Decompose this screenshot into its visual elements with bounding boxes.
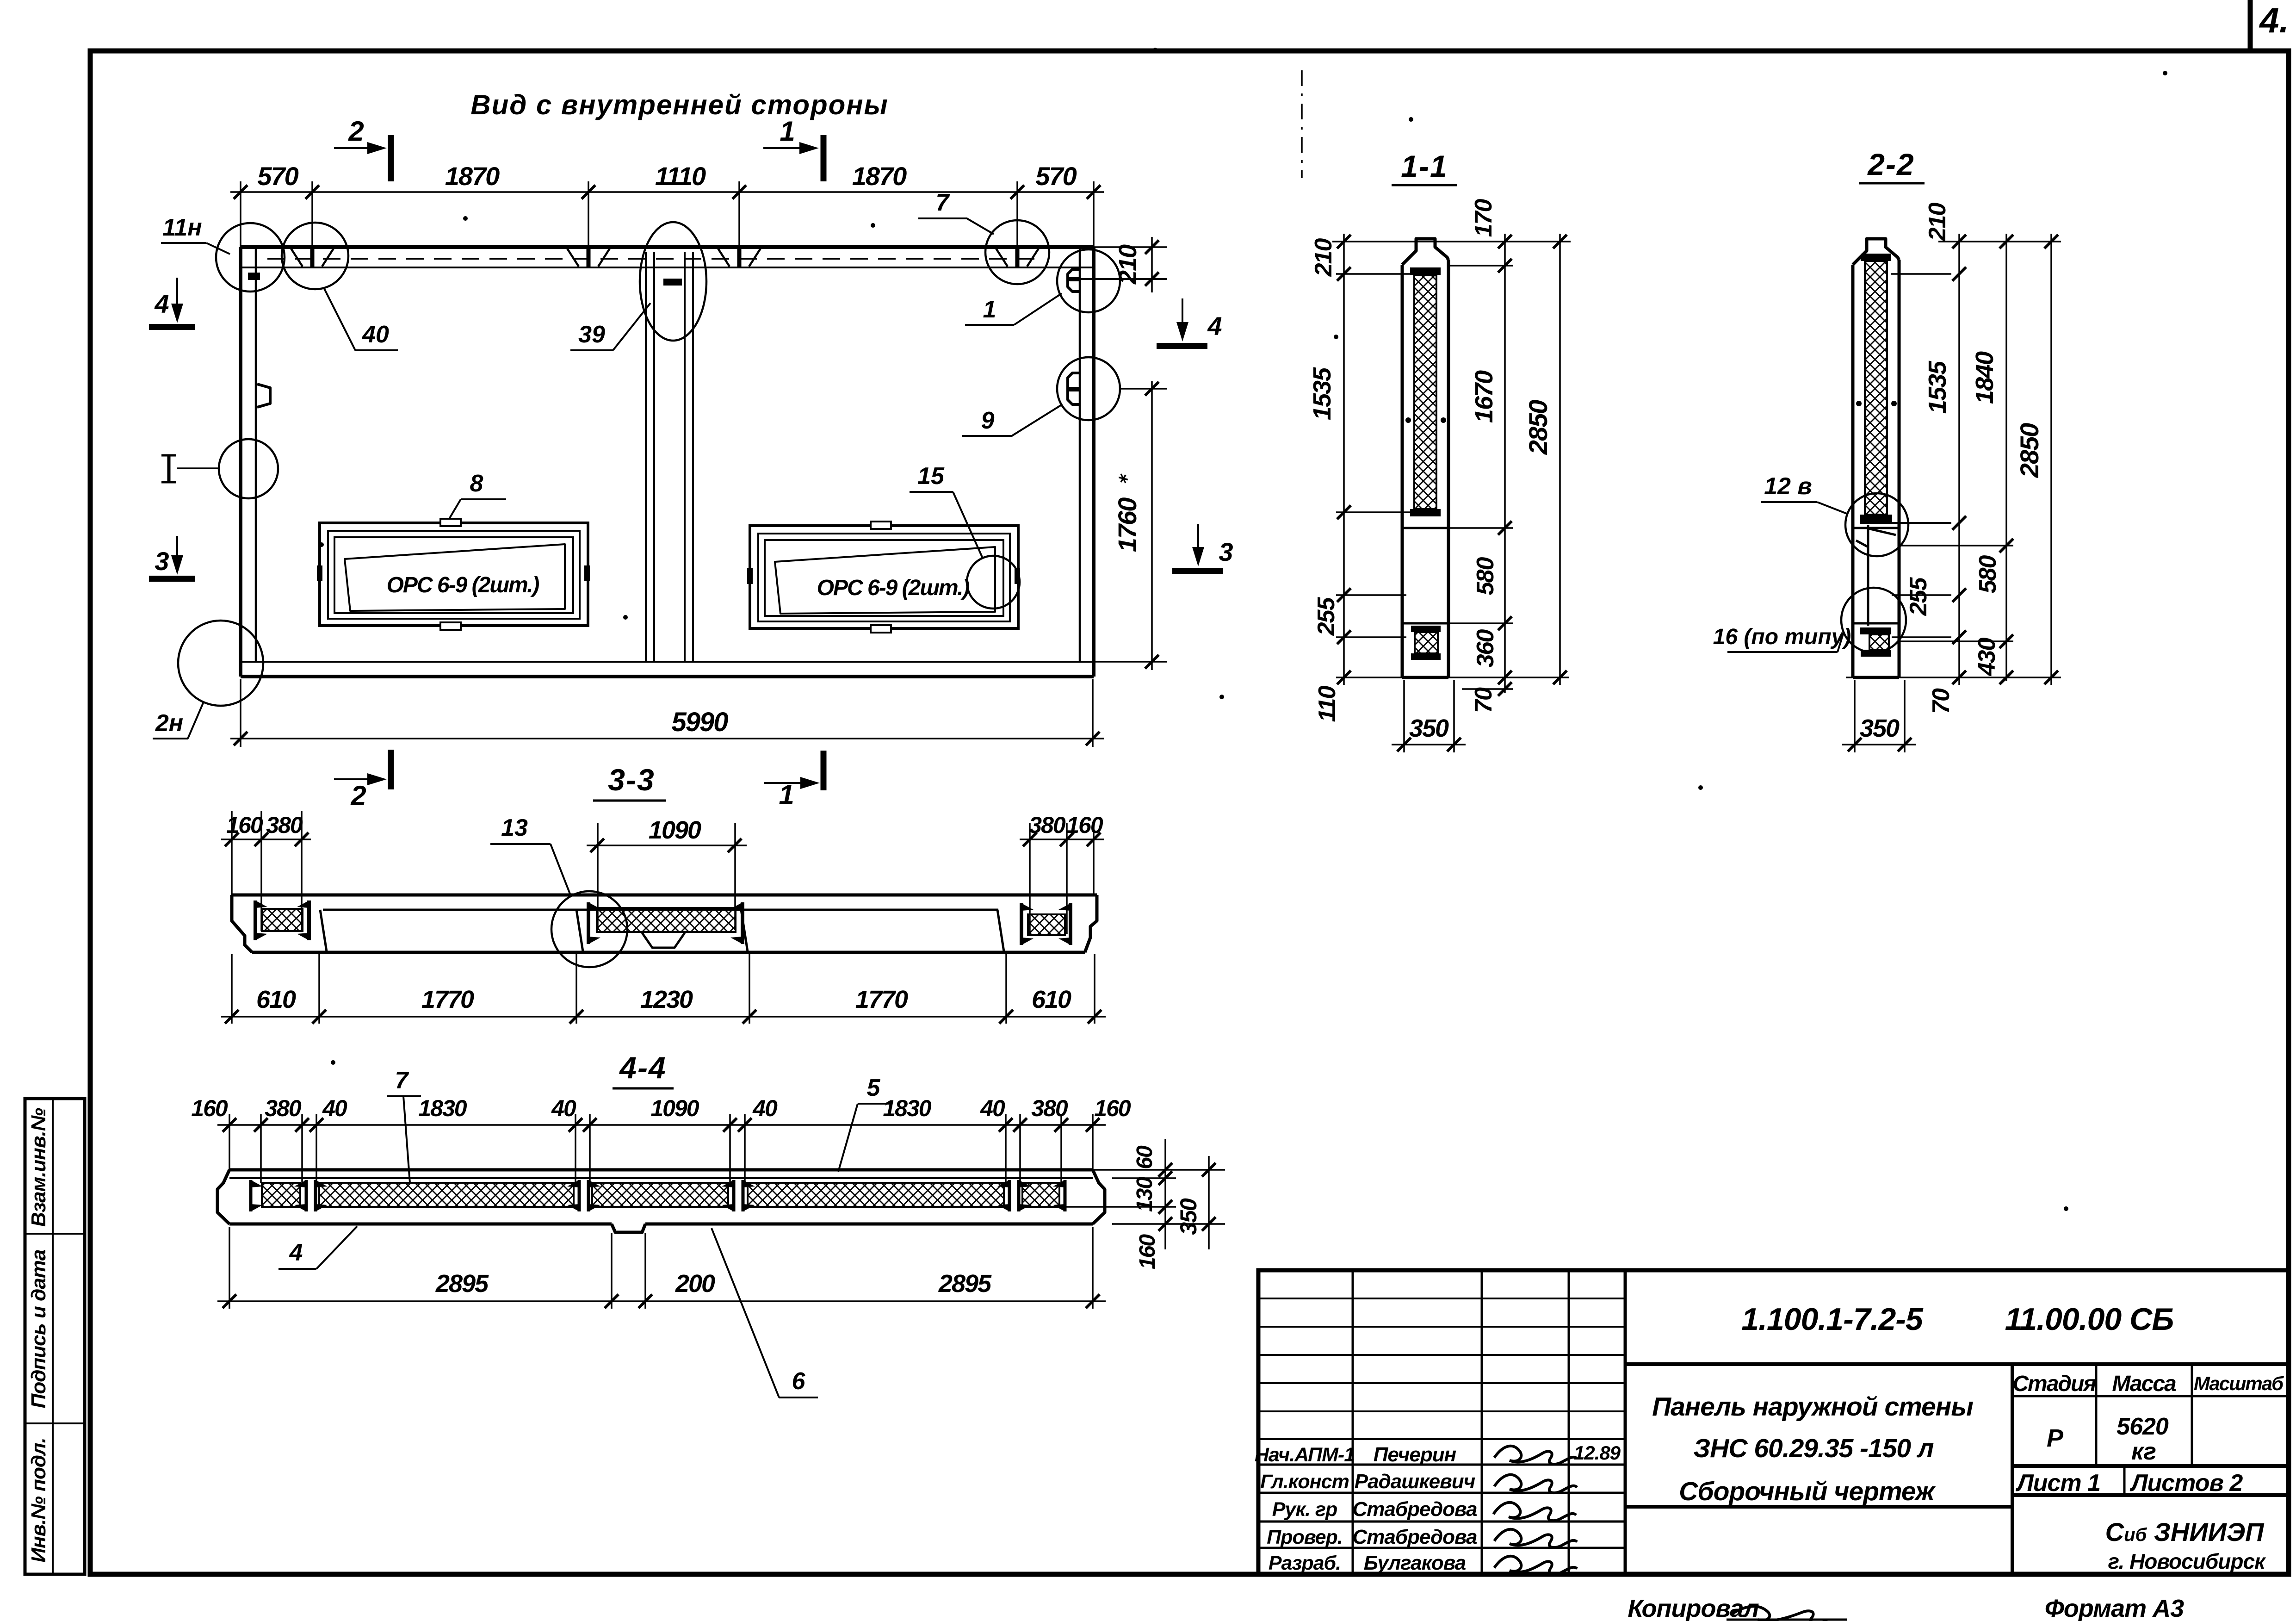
svg-text:1830: 1830 bbox=[883, 1095, 931, 1121]
svg-text:Лист 1: Лист 1 bbox=[2015, 1470, 2100, 1497]
svg-text:380: 380 bbox=[265, 1095, 302, 1121]
svg-text:Стабредова: Стабредова bbox=[1352, 1526, 1477, 1548]
svg-text:160: 160 bbox=[1094, 1095, 1131, 1121]
svg-text:40: 40 bbox=[322, 1095, 347, 1121]
svg-text:4: 4 bbox=[289, 1239, 303, 1266]
svg-text:5620: 5620 bbox=[2117, 1413, 2169, 1440]
svg-text:1770: 1770 bbox=[421, 986, 474, 1013]
svg-text:16 (по типу): 16 (по типу) bbox=[1713, 625, 1851, 649]
svg-text:380: 380 bbox=[1029, 812, 1066, 838]
svg-text:1230: 1230 bbox=[640, 986, 693, 1013]
svg-text:4: 4 bbox=[1207, 311, 1222, 341]
svg-text:Сборочный чертеж: Сборочный чертеж bbox=[1679, 1477, 1936, 1506]
svg-text:210: 210 bbox=[1924, 203, 1951, 242]
svg-text:4.: 4. bbox=[2259, 1, 2289, 40]
svg-text:Печерин: Печерин bbox=[1374, 1443, 1456, 1466]
svg-text:3-3: 3-3 bbox=[608, 763, 655, 797]
svg-text:1.100.1-7.2-5: 1.100.1-7.2-5 bbox=[1741, 1302, 1924, 1337]
svg-text:570: 570 bbox=[1035, 161, 1077, 191]
svg-text:1535: 1535 bbox=[1924, 360, 1951, 414]
svg-text:13: 13 bbox=[501, 814, 528, 841]
svg-text:160: 160 bbox=[1066, 812, 1103, 838]
svg-text:Булгакова: Булгакова bbox=[1364, 1552, 1466, 1574]
svg-text:40: 40 bbox=[551, 1095, 576, 1121]
svg-text:12.89: 12.89 bbox=[1574, 1442, 1621, 1464]
svg-text:Разраб.: Разраб. bbox=[1269, 1552, 1341, 1574]
svg-text:7: 7 bbox=[936, 189, 950, 216]
svg-text:2895: 2895 bbox=[938, 1270, 992, 1298]
svg-text:40: 40 bbox=[980, 1095, 1005, 1121]
svg-text:580: 580 bbox=[1974, 555, 2001, 594]
svg-text:350: 350 bbox=[1409, 714, 1449, 742]
svg-text:350: 350 bbox=[1176, 1198, 1201, 1235]
svg-text:1760: 1760 bbox=[1113, 497, 1142, 552]
svg-text:255: 255 bbox=[1313, 597, 1340, 636]
svg-text:70: 70 bbox=[1470, 687, 1497, 713]
svg-text:Масштаб: Масштаб bbox=[2194, 1373, 2284, 1394]
svg-text:г. Новосибирск: г. Новосибирск bbox=[2108, 1549, 2267, 1573]
svg-text:160: 160 bbox=[1135, 1234, 1160, 1269]
svg-text:Листов 2: Листов 2 bbox=[2129, 1470, 2243, 1497]
svg-text:Нач.АПМ-1: Нач.АПМ-1 bbox=[1255, 1444, 1355, 1466]
svg-text:570: 570 bbox=[257, 161, 298, 191]
svg-text:12 в: 12 в bbox=[1764, 473, 1812, 500]
svg-text:1870: 1870 bbox=[852, 161, 907, 191]
svg-text:40: 40 bbox=[362, 321, 389, 348]
svg-text:1770: 1770 bbox=[855, 986, 908, 1013]
svg-text:8: 8 bbox=[470, 470, 483, 497]
svg-text:9: 9 bbox=[981, 407, 995, 434]
svg-text:2: 2 bbox=[348, 116, 364, 147]
svg-text:5: 5 bbox=[867, 1074, 881, 1101]
svg-text:1090: 1090 bbox=[650, 1095, 699, 1121]
svg-text:70: 70 bbox=[1928, 688, 1955, 714]
svg-text:Подпись и дата: Подпись и дата bbox=[27, 1249, 50, 1408]
svg-text:580: 580 bbox=[1472, 557, 1499, 596]
svg-text:170: 170 bbox=[1470, 199, 1497, 237]
svg-text:Рук. гр: Рук. гр bbox=[1272, 1498, 1337, 1521]
svg-text:255: 255 bbox=[1905, 577, 1932, 616]
svg-text:2850: 2850 bbox=[1523, 400, 1553, 455]
svg-text:39: 39 bbox=[578, 321, 605, 348]
svg-text:Взам.инв.№: Взам.инв.№ bbox=[27, 1108, 50, 1227]
svg-text:5990: 5990 bbox=[671, 707, 728, 737]
svg-text:Масса: Масса bbox=[2112, 1372, 2176, 1396]
svg-text:380: 380 bbox=[1031, 1095, 1068, 1121]
svg-text:350: 350 bbox=[1860, 714, 1900, 742]
svg-text:Формат А3: Формат А3 bbox=[2045, 1595, 2184, 1621]
svg-text:7: 7 bbox=[395, 1067, 409, 1094]
svg-text:4: 4 bbox=[154, 289, 169, 318]
svg-text:2-2: 2-2 bbox=[1867, 147, 1914, 181]
svg-text:Радашкевич: Радашкевич bbox=[1355, 1470, 1475, 1493]
svg-text:2: 2 bbox=[350, 780, 366, 811]
svg-text:130: 130 bbox=[1133, 1177, 1157, 1212]
svg-text:110: 110 bbox=[1314, 685, 1341, 722]
svg-text:ЗНС 60.29.35 -150 л: ЗНС 60.29.35 -150 л bbox=[1694, 1434, 1934, 1463]
svg-text:1840: 1840 bbox=[1971, 351, 1999, 404]
svg-text:1: 1 bbox=[983, 296, 996, 323]
svg-text:1870: 1870 bbox=[445, 161, 500, 191]
svg-text:ОРС 6-9 (2шт.): ОРС 6-9 (2шт.) bbox=[387, 573, 539, 597]
svg-text:Провер.: Провер. bbox=[1267, 1526, 1343, 1548]
svg-text:Копировал: Копировал bbox=[1628, 1595, 1759, 1621]
svg-text:Гл.конст: Гл.конст bbox=[1260, 1471, 1349, 1493]
svg-text:4-4: 4-4 bbox=[619, 1050, 666, 1085]
svg-text:1670: 1670 bbox=[1470, 370, 1498, 423]
svg-text:11.00.00 СБ: 11.00.00 СБ bbox=[2005, 1302, 2174, 1337]
svg-text:Стадия: Стадия bbox=[2012, 1372, 2096, 1396]
svg-text:Стабредова: Стабредова bbox=[1352, 1498, 1477, 1521]
svg-text:2895: 2895 bbox=[435, 1270, 489, 1298]
svg-text:Инв.№ подл.: Инв.№ подл. bbox=[27, 1438, 50, 1562]
svg-text:Р: Р bbox=[2047, 1424, 2064, 1452]
svg-text:2850: 2850 bbox=[2015, 423, 2044, 478]
svg-text:ОРС 6-9 (2шт.): ОРС 6-9 (2шт.) bbox=[817, 576, 970, 600]
svg-text:160: 160 bbox=[191, 1095, 228, 1121]
svg-text:200: 200 bbox=[675, 1270, 715, 1298]
svg-text:380: 380 bbox=[266, 812, 303, 838]
svg-text:1110: 1110 bbox=[655, 161, 706, 191]
svg-text:610: 610 bbox=[256, 986, 296, 1013]
svg-text:610: 610 bbox=[1032, 986, 1071, 1013]
svg-text:1: 1 bbox=[779, 779, 794, 810]
svg-text:3: 3 bbox=[1219, 537, 1233, 566]
svg-text:430: 430 bbox=[1974, 638, 2000, 677]
svg-text:15: 15 bbox=[917, 463, 945, 490]
svg-text:кг: кг bbox=[2131, 1438, 2156, 1465]
svg-text:Панель наружной стены: Панель наружной стены bbox=[1652, 1392, 1973, 1422]
svg-text:1090: 1090 bbox=[649, 816, 701, 844]
svg-text:210: 210 bbox=[1310, 238, 1337, 277]
svg-text:6: 6 bbox=[792, 1368, 806, 1395]
svg-text:⁎: ⁎ bbox=[1111, 473, 1131, 484]
svg-text:210: 210 bbox=[1114, 244, 1142, 285]
svg-text:11н: 11н bbox=[162, 214, 202, 241]
svg-text:1-1: 1-1 bbox=[1401, 149, 1448, 183]
svg-text:3: 3 bbox=[155, 547, 169, 576]
svg-text:1: 1 bbox=[780, 116, 795, 147]
svg-text:1535: 1535 bbox=[1308, 367, 1336, 420]
svg-text:1830: 1830 bbox=[418, 1095, 467, 1121]
svg-text:2н: 2н bbox=[155, 710, 183, 737]
svg-text:Вид с внутренней стороны: Вид с внутренней стороны bbox=[470, 89, 889, 120]
svg-text:60: 60 bbox=[1133, 1145, 1157, 1169]
svg-text:360: 360 bbox=[1472, 629, 1499, 668]
svg-text:40: 40 bbox=[752, 1095, 778, 1121]
